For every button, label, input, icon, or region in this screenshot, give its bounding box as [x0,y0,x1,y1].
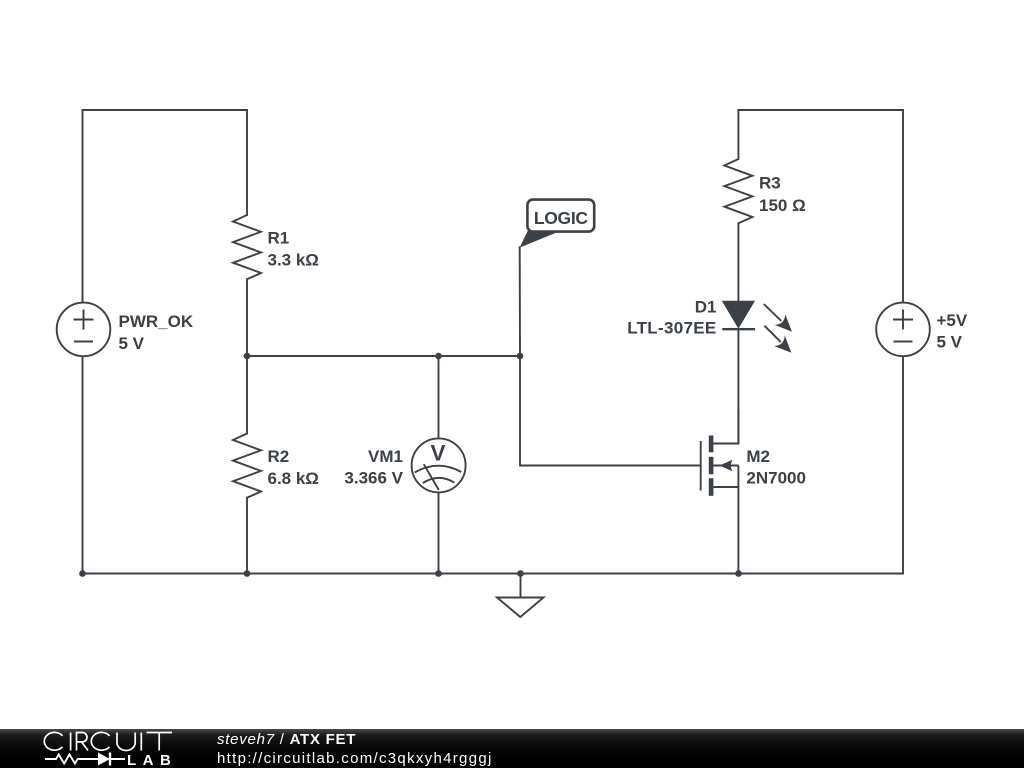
label PWR_OK 5 V [119,312,194,353]
wire middle horizontal [247,355,520,357]
voltage source V2 +5V [876,303,930,357]
wire LED to drain [737,329,739,443]
wire top left loop [83,110,248,302]
svg-text:5 V: 5 V [937,332,963,351]
svg-text:LAB: LAB [127,752,177,768]
svg-text:V: V [430,441,445,466]
junction R1/R2 divider node [244,353,251,360]
resistor R3 [724,159,752,223]
label R3 150 Ohm [759,174,806,216]
label R1 3.3 kOhm [268,229,319,270]
resistor R1 [233,215,261,279]
junction ground net at PWR_OK [79,570,86,577]
svg-text:3.3 kΩ: 3.3 kΩ [268,251,319,270]
wire bottom ground net [83,573,904,575]
LED light arrow 1 [764,304,792,332]
label R2 6.8 kOhm [268,447,319,488]
flag LOGIC [520,200,595,248]
svg-text:+5V: +5V [937,311,968,330]
svg-text:6.8 kΩ: 6.8 kΩ [268,469,319,488]
resistor R2 [233,434,261,498]
voltmeter VM1 [412,438,466,492]
svg-text:R1: R1 [268,229,290,248]
svg-text:150 Ω: 150 Ω [759,196,806,215]
svg-text:R3: R3 [759,174,781,193]
svg-text:LOGIC: LOGIC [534,208,589,228]
footer bar [0,729,1024,768]
label D1 LTL-307EE [627,297,716,337]
wire +5V bottom lead [902,357,904,574]
junction ground net at ground symbol [517,570,524,577]
LED D1 [722,302,755,330]
label +5V 5 V [937,311,968,352]
MOSFET M2 [701,410,739,491]
label M2 2N7000 [746,447,806,488]
svg-text:2N7000: 2N7000 [746,469,806,488]
junction LOGIC net node [517,353,524,360]
wire VM1 leads [438,356,440,438]
wire R3 to LED [737,223,739,301]
wire LOGIC flag to node [519,247,521,356]
wire source to ground [737,487,739,574]
credit text [217,730,493,769]
svg-text:D1: D1 [695,297,717,316]
svg-text:R2: R2 [268,447,290,466]
MOSFET body arrow head [719,460,732,472]
logo diode [89,758,125,760]
junction ground net at M2 source [735,570,742,577]
wire left bottom [82,357,84,574]
svg-text:PWR_OK: PWR_OK [119,312,194,331]
label VM1 3.366 V [344,447,403,488]
logo resistor squiggle [45,755,89,764]
wire top right loop [738,110,903,302]
wire R2 leads [246,356,248,434]
voltage source V1 PWR_OK [57,303,111,357]
MOSFET M2 channel bars [709,436,733,496]
wire ground stem [520,574,522,598]
svg-text:VM1: VM1 [368,447,403,466]
svg-text:5 V: 5 V [119,334,145,353]
junction ground net at VM1 [435,570,442,577]
ground symbol [497,598,544,618]
svg-text:LTL-307EE: LTL-307EE [627,319,716,338]
wire node to gate [520,356,700,466]
wire R1 to middle node [246,279,248,356]
voltmeter V letter [430,441,445,466]
svg-text:3.366 V: 3.366 V [344,469,403,488]
junction VM1 tap [435,353,442,360]
svg-text:M2: M2 [746,447,770,466]
LED light arrow 2 [764,326,791,353]
CircuitLab logo [0,729,190,768]
logo word CIRCUIT (thin stroked letters) [44,732,172,750]
junction ground net at R2 [244,570,251,577]
